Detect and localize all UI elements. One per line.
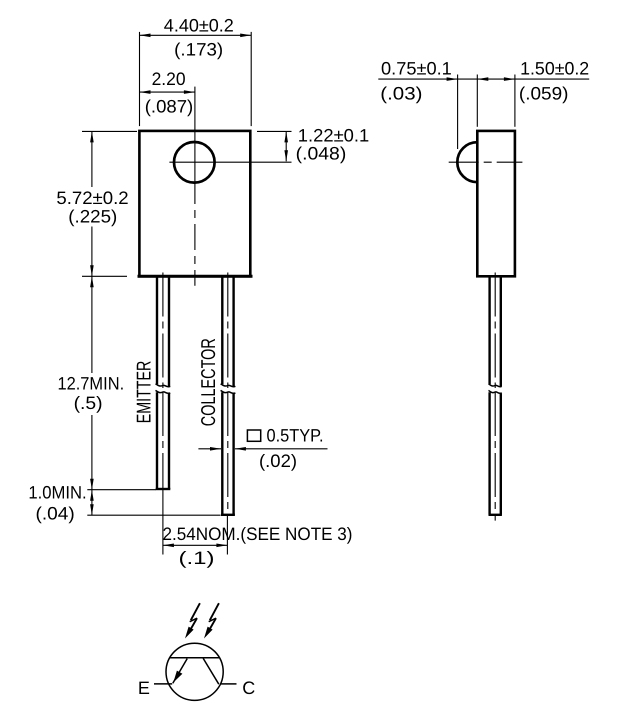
svg-text:1.22±0.1: 1.22±0.1	[298, 125, 369, 145]
svg-text:C: C	[242, 678, 255, 698]
svg-text:(.04): (.04)	[36, 504, 75, 524]
svg-text:12.7MIN.: 12.7MIN.	[57, 373, 124, 393]
svg-text:0.5TYP.: 0.5TYP.	[267, 426, 324, 446]
svg-text:E: E	[138, 678, 150, 698]
svg-text:(.225): (.225)	[68, 206, 117, 226]
svg-text:2.20: 2.20	[152, 69, 186, 89]
svg-text:(.173): (.173)	[174, 40, 223, 60]
svg-text:0.75±0.1: 0.75±0.1	[381, 58, 452, 78]
svg-text:(.02): (.02)	[259, 451, 297, 471]
svg-text:(.087): (.087)	[145, 97, 194, 117]
svg-text:(.059): (.059)	[519, 83, 569, 103]
svg-text:2.54NOM.(SEE NOTE 3): 2.54NOM.(SEE NOTE 3)	[163, 524, 353, 544]
svg-text:5.72±0.2: 5.72±0.2	[56, 188, 128, 208]
svg-text:(.5): (.5)	[74, 393, 103, 413]
svg-text:EMITTER: EMITTER	[134, 361, 156, 424]
svg-text:(.03): (.03)	[380, 83, 422, 103]
svg-text:(.1): (.1)	[179, 548, 215, 568]
svg-text:1.0MIN.: 1.0MIN.	[28, 483, 86, 503]
svg-text:COLLECTOR: COLLECTOR	[198, 338, 220, 426]
svg-text:4.40±0.2: 4.40±0.2	[164, 16, 234, 36]
svg-text:1.50±0.2: 1.50±0.2	[520, 58, 589, 78]
svg-text:(.048): (.048)	[296, 144, 347, 164]
